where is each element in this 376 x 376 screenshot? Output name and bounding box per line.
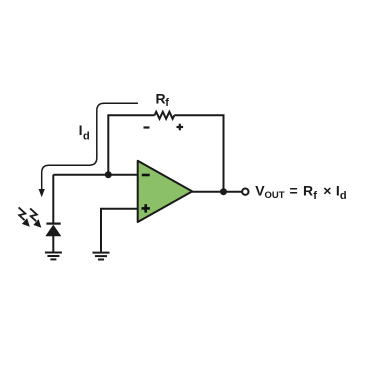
svg-text:f: f [313, 190, 317, 202]
svg-text:OUT: OUT [265, 190, 285, 201]
svg-text:R: R [303, 182, 313, 198]
svg-text:f: f [165, 97, 169, 109]
svg-text:d: d [83, 130, 90, 142]
svg-text:=: = [290, 182, 298, 198]
svg-text:d: d [340, 190, 347, 202]
svg-text:R: R [156, 90, 166, 106]
svg-text:I: I [79, 122, 83, 138]
svg-text:×: × [323, 182, 331, 198]
